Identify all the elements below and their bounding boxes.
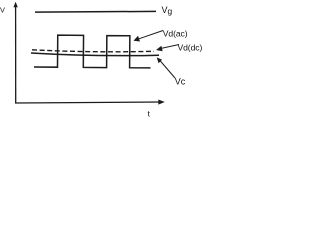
dashed line Vd(dc) <box>32 50 154 52</box>
V axis (vertical) <box>13 2 17 104</box>
svg-text:Vd(ac): Vd(ac) <box>163 28 188 38</box>
square wave Vd(ac) <box>34 35 151 68</box>
svg-text:Vg: Vg <box>162 5 173 16</box>
svg-text:Vd(dc): Vd(dc) <box>178 43 203 53</box>
svg-text:Vc: Vc <box>175 77 186 87</box>
t axis (horizontal) <box>15 100 165 105</box>
arrow to Vc <box>157 57 175 78</box>
svg-text:t: t <box>148 109 151 118</box>
svg-text:V: V <box>0 6 5 15</box>
arrow to Vd(ac) <box>134 31 164 42</box>
Vc line <box>31 53 159 56</box>
arrow to Vd(dc) <box>156 45 179 52</box>
Vg line <box>35 10 156 13</box>
